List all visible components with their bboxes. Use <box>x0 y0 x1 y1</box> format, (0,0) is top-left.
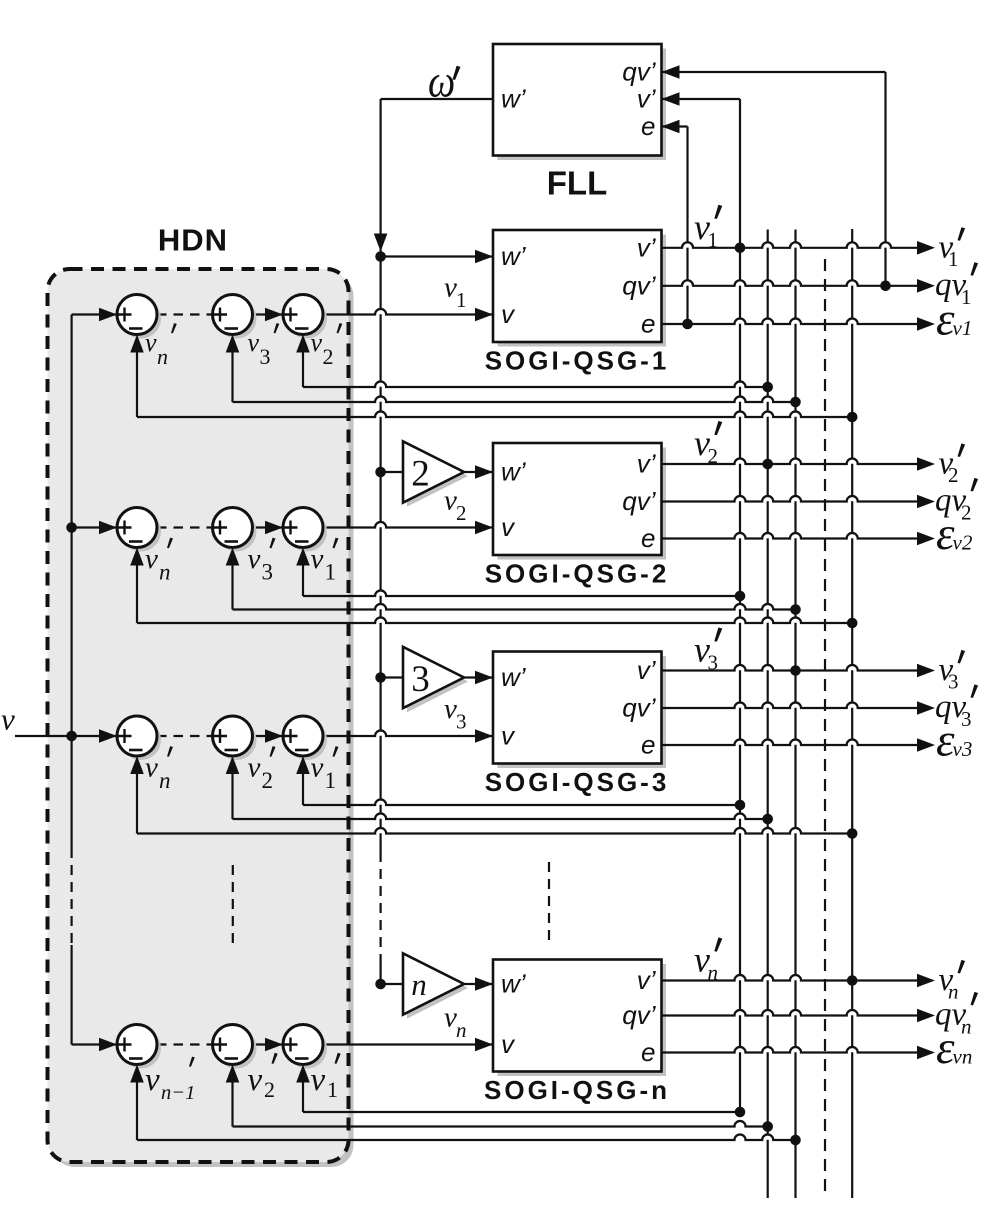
svg-text:n: n <box>708 961 719 985</box>
svg-text:n−1: n−1 <box>161 1082 195 1104</box>
svg-text:w’: w’ <box>501 241 527 271</box>
svg-text:n: n <box>411 967 427 1002</box>
svg-text:v: v <box>501 1029 516 1059</box>
svg-text:SOGI-QSG-2: SOGI-QSG-2 <box>485 559 670 589</box>
svg-text:v: v <box>145 328 157 357</box>
svg-text:v: v <box>248 752 261 784</box>
svg-text:FLL: FLL <box>547 165 607 202</box>
svg-text:1: 1 <box>456 288 467 312</box>
svg-text:w’: w’ <box>501 969 527 999</box>
svg-text:v1: v1 <box>953 316 973 340</box>
svg-text:v: v <box>248 543 261 575</box>
svg-text:2: 2 <box>323 344 334 369</box>
svg-text:2: 2 <box>961 501 972 525</box>
svg-text:e: e <box>641 111 655 141</box>
svg-text:2: 2 <box>264 1077 275 1102</box>
svg-text:v2: v2 <box>953 531 973 555</box>
svg-text:3: 3 <box>961 707 972 731</box>
svg-text:1: 1 <box>708 228 719 252</box>
svg-text:v’: v’ <box>637 965 657 995</box>
svg-text:n: n <box>961 1015 972 1039</box>
svg-text:v’: v’ <box>637 232 657 262</box>
svg-text:1: 1 <box>961 285 972 309</box>
svg-text:qv’: qv’ <box>622 270 656 300</box>
svg-text:vn: vn <box>953 1045 973 1069</box>
svg-text:SOGI-QSG-3: SOGI-QSG-3 <box>485 767 670 797</box>
svg-text:v: v <box>145 1062 160 1098</box>
svg-text:2: 2 <box>456 501 467 525</box>
svg-text:HDN: HDN <box>158 223 228 258</box>
svg-text:e: e <box>641 730 655 760</box>
svg-text:v: v <box>145 543 158 575</box>
svg-text:1: 1 <box>325 768 337 793</box>
svg-text:qv’: qv’ <box>622 693 656 723</box>
svg-text:qv’: qv’ <box>622 486 656 516</box>
svg-text:v: v <box>311 1062 326 1098</box>
svg-text:w’: w’ <box>501 84 527 114</box>
svg-text:n: n <box>159 768 171 793</box>
svg-text:n: n <box>456 1018 467 1042</box>
svg-text:v’: v’ <box>637 449 657 479</box>
svg-text:2: 2 <box>411 454 430 495</box>
svg-text:1: 1 <box>327 1077 338 1102</box>
svg-text:e: e <box>641 523 655 553</box>
svg-text:qv’: qv’ <box>622 57 656 87</box>
svg-text:3: 3 <box>260 344 271 369</box>
svg-text:w’: w’ <box>501 662 527 692</box>
svg-text:2: 2 <box>262 768 274 793</box>
svg-text:e: e <box>641 309 655 339</box>
svg-text:n: n <box>157 344 168 369</box>
svg-text:w’: w’ <box>501 457 527 487</box>
svg-text:2: 2 <box>708 444 719 468</box>
svg-text:v: v <box>311 328 323 357</box>
svg-text:v: v <box>501 512 516 542</box>
svg-text:v: v <box>145 752 158 784</box>
svg-text:v: v <box>501 721 516 751</box>
svg-text:v: v <box>311 752 324 784</box>
svg-text:v: v <box>1 702 15 737</box>
svg-text:ω: ω <box>428 56 455 107</box>
svg-text:v: v <box>311 543 324 575</box>
svg-text:v: v <box>248 328 260 357</box>
svg-text:3: 3 <box>456 710 467 734</box>
svg-text:SOGI-QSG-n: SOGI-QSG-n <box>484 1075 670 1105</box>
svg-text:v3: v3 <box>953 737 973 761</box>
svg-text:3: 3 <box>411 659 430 700</box>
svg-text:v: v <box>501 299 516 329</box>
svg-text:1: 1 <box>325 560 337 585</box>
svg-text:n: n <box>159 560 171 585</box>
svg-text:v: v <box>248 1062 263 1098</box>
svg-text:3: 3 <box>708 651 719 675</box>
svg-text:SOGI-QSG-1: SOGI-QSG-1 <box>485 346 670 376</box>
svg-text:3: 3 <box>262 560 274 585</box>
svg-text:v’: v’ <box>637 655 657 685</box>
svg-text:e: e <box>641 1037 655 1067</box>
svg-text:v’: v’ <box>637 84 657 114</box>
svg-text:qv’: qv’ <box>622 1000 656 1030</box>
